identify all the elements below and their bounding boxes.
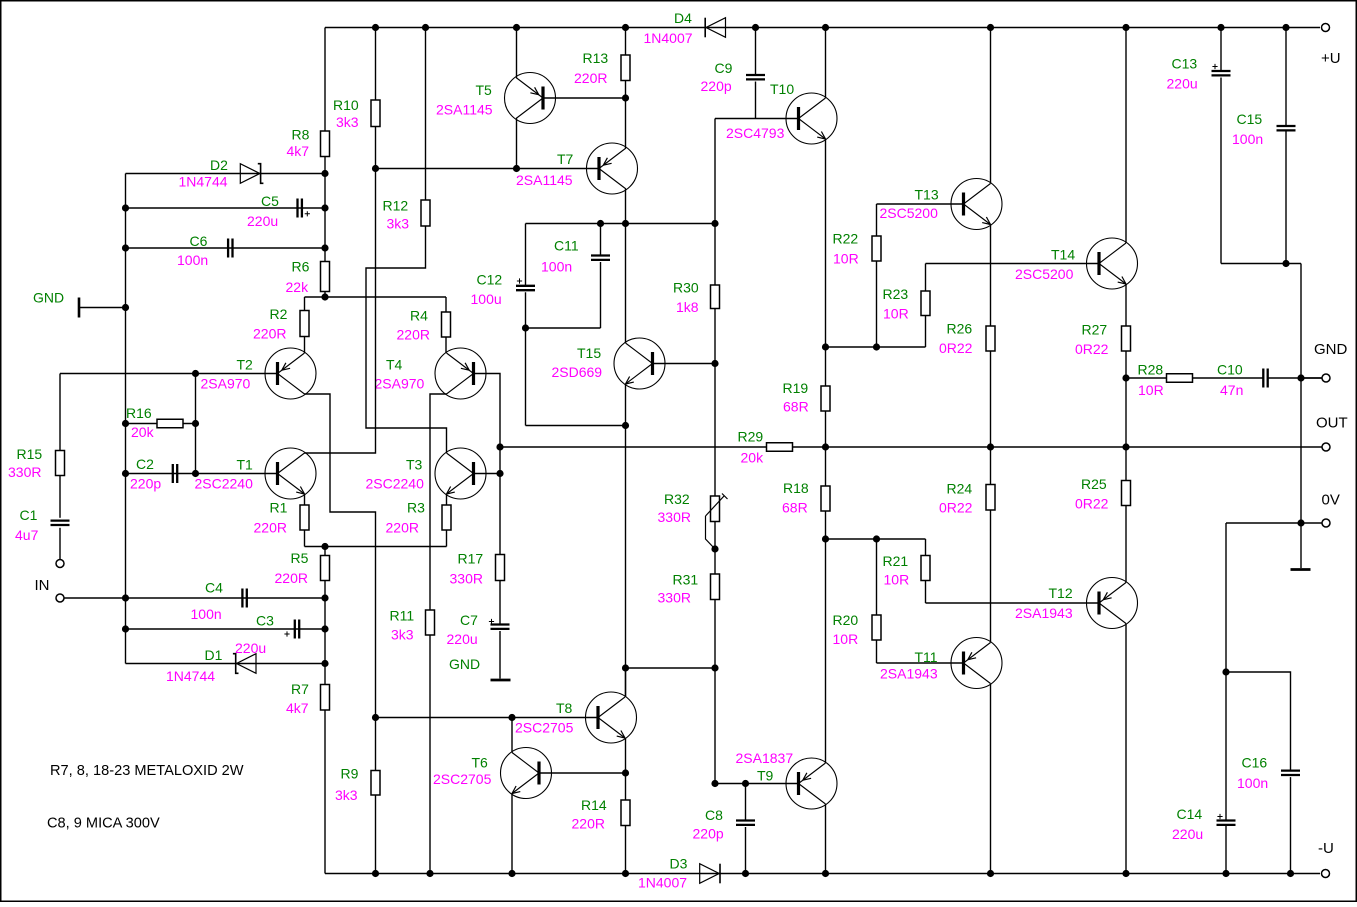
svg-text:220u: 220u: [1172, 826, 1203, 842]
resistor R6: [321, 262, 330, 292]
wire R27 down to OUT: [1125, 351, 1127, 447]
svg-text:D4: D4: [674, 10, 692, 26]
terminal OUT: [1322, 443, 1330, 451]
svg-text:T5: T5: [476, 82, 493, 98]
trimmer R32: [711, 496, 720, 522]
junction dots bottom mirror: [508, 714, 515, 721]
wire T13 emitter down: [990, 225, 992, 327]
wire R28 row: [1126, 377, 1167, 379]
wire left bias column: [125, 174, 127, 664]
svg-text:T15: T15: [577, 345, 601, 361]
svg-text:2SA970: 2SA970: [201, 376, 251, 392]
capacitor C6: [228, 239, 232, 258]
svg-text:330R: 330R: [450, 571, 483, 587]
svg-text:220R: 220R: [275, 570, 308, 586]
ground GND left symbol: [78, 298, 81, 318]
wire +U top rail: [325, 27, 1320, 29]
wire T6 collector up: [511, 718, 513, 753]
capacitor C12: [525, 224, 527, 286]
wire R24 up to OUT: [990, 447, 992, 485]
wire T10 base: [715, 118, 798, 120]
transistor T9: [786, 758, 837, 809]
svg-text:C8: C8: [705, 807, 723, 823]
svg-text:R19: R19: [783, 380, 809, 396]
wire R20 column: [876, 539, 878, 615]
svg-text:2SA1943: 2SA1943: [880, 666, 938, 682]
resistor R14: [621, 800, 630, 826]
wire T4 base to feedback node: [474, 374, 501, 555]
svg-text:R31: R31: [673, 572, 699, 588]
wire R31 node to T9 base: [714, 668, 716, 784]
wire T15 collector up: [625, 224, 627, 344]
svg-text:2SA1145: 2SA1145: [516, 172, 573, 188]
svg-text:R5: R5: [291, 550, 309, 566]
wire T8 base row: [376, 717, 598, 719]
svg-text:D3: D3: [670, 856, 688, 872]
svg-text:C5: C5: [261, 193, 279, 209]
wire T11 collector down: [990, 684, 992, 874]
wire R21 column: [925, 539, 927, 556]
capacitor C3: [295, 620, 299, 639]
junction dots T5/T7 region: [513, 165, 520, 172]
svg-text:2SC5200: 2SC5200: [1015, 266, 1074, 282]
resistor R7: [321, 685, 330, 711]
wire T11 base row: [877, 662, 964, 664]
wire T2 collector path: [305, 394, 376, 718]
wire T7 emitter up: [625, 98, 627, 148]
wire T8 collector up: [625, 668, 627, 697]
svg-text:R21: R21: [883, 553, 909, 569]
wire T1 emitter / R1: [304, 494, 306, 505]
svg-text:R7, 8, 18-23 METALOXID 2W: R7, 8, 18-23 METALOXID 2W: [50, 763, 244, 779]
svg-text:C13: C13: [1172, 56, 1198, 72]
svg-text:R27: R27: [1082, 322, 1108, 338]
wire IN / C4 row: [64, 597, 325, 599]
svg-text:C3: C3: [256, 613, 274, 629]
wire R4 column: [445, 297, 447, 312]
svg-text:220p: 220p: [701, 78, 732, 94]
wire R2 column: [304, 297, 306, 311]
capacitor C15: [1285, 28, 1287, 127]
terminal 0V: [1322, 519, 1330, 527]
svg-text:C1: C1: [20, 507, 38, 523]
junction dots feedback node: [496, 443, 503, 450]
svg-text:+U: +U: [1321, 50, 1341, 67]
wire T5 collector down: [516, 119, 518, 169]
wire R18 column: [825, 447, 827, 486]
wire T8 collector row: [626, 667, 716, 669]
svg-text:C12: C12: [477, 272, 503, 288]
svg-text:10R: 10R: [884, 572, 910, 588]
wire T1 collector path: [305, 169, 376, 454]
svg-text:R20: R20: [833, 612, 859, 628]
capacitor C8: [745, 784, 747, 821]
svg-text:R13: R13: [583, 50, 609, 66]
wire T12 emitter up: [1125, 506, 1127, 583]
zener diode D2: [240, 164, 259, 184]
svg-text:-U: -U: [1318, 840, 1334, 857]
wire C11/C12 bottom row: [526, 327, 601, 329]
wire T10 base jog down to R30: [714, 119, 716, 224]
svg-text:3k3: 3k3: [391, 627, 414, 643]
wire T14 emitter down: [1125, 284, 1127, 326]
svg-text:R7: R7: [291, 681, 309, 697]
wire T5 base row: [543, 97, 626, 99]
diode D2 row wire: [126, 173, 326, 175]
svg-text:0R22: 0R22: [1075, 341, 1109, 357]
wire T8 emitter / R14 column: [625, 738, 627, 800]
svg-text:R24: R24: [947, 481, 973, 497]
svg-text:T3: T3: [406, 457, 423, 473]
wire T10 collector to rail: [825, 28, 827, 99]
capacitor C9: [755, 28, 757, 76]
svg-text:C15: C15: [1237, 111, 1263, 127]
transistor T11: [951, 638, 1002, 689]
svg-text:R1: R1: [270, 500, 288, 516]
capacitor C16: [1281, 771, 1300, 775]
resistor R9: [371, 771, 380, 796]
wire T3 emitter / R3: [446, 494, 448, 505]
resistor R2: [300, 311, 309, 337]
svg-text:2SC2240: 2SC2240: [366, 476, 425, 492]
svg-text:3k3: 3k3: [335, 787, 358, 803]
wire R8 column: [324, 28, 326, 132]
resistor R24: [986, 485, 995, 511]
svg-text:T9: T9: [757, 768, 774, 784]
svg-text:R26: R26: [947, 321, 973, 337]
wire T13 collector to rail: [990, 28, 992, 184]
svg-text:R18: R18: [783, 480, 809, 496]
transistor T15: [614, 338, 665, 389]
resistor R27: [1122, 326, 1131, 351]
svg-text:2SA1943: 2SA1943: [1015, 605, 1073, 621]
svg-text:R2: R2: [270, 306, 288, 322]
resistor R30: [711, 285, 720, 309]
transistor T14: [1087, 238, 1138, 289]
wire T11 emitter up: [990, 510, 992, 643]
junction dots OUT row: [822, 443, 829, 450]
resistor R5: [321, 556, 330, 581]
wire 0V row: [1226, 522, 1322, 524]
wire C13/C15 bottom row: [1221, 263, 1301, 265]
capacitor C11: [600, 224, 602, 256]
svg-text:220u: 220u: [235, 640, 266, 656]
svg-text:C11: C11: [554, 238, 579, 254]
svg-text:R11: R11: [390, 608, 415, 624]
svg-text:T13: T13: [915, 187, 939, 203]
svg-text:R12: R12: [383, 198, 409, 214]
wire T9 base row: [715, 783, 799, 785]
wire T12 base row: [926, 602, 1099, 604]
svg-text:R14: R14: [581, 797, 607, 813]
wire R9 column: [375, 718, 377, 771]
resistor R13: [621, 55, 630, 81]
transistor T4: [435, 348, 486, 399]
junction dots driver bias: [873, 343, 880, 350]
wire T7 base row: [376, 168, 599, 170]
resistor R3: [442, 505, 451, 530]
capacitor C4: [242, 589, 246, 608]
svg-text:GND: GND: [449, 656, 480, 672]
svg-text:R15: R15: [17, 446, 43, 462]
junction dots VAS region: [597, 220, 604, 227]
wire input divider column x=195.5: [195, 374, 197, 474]
svg-text:1N4744: 1N4744: [179, 174, 228, 190]
svg-text:2SC2240: 2SC2240: [195, 476, 254, 492]
svg-text:R8: R8: [292, 127, 310, 143]
wire R30 column: [714, 224, 716, 286]
wire emitter degeneration row: [305, 546, 447, 548]
svg-text:20k: 20k: [741, 450, 765, 466]
resistor R28: [1167, 374, 1193, 383]
svg-text:R4: R4: [410, 308, 428, 324]
svg-text:0V: 0V: [1322, 492, 1340, 509]
resistor R4: [442, 312, 451, 337]
svg-text:R29: R29: [738, 429, 764, 445]
wire R2-R4 top node row: [305, 296, 447, 298]
resistor R8: [321, 131, 330, 157]
wire T15 emitter down: [625, 384, 627, 426]
wire R18 node row: [826, 538, 926, 540]
wire R19 column: [825, 347, 827, 386]
wire OUT line: [500, 446, 767, 448]
svg-text:2SC4793: 2SC4793: [726, 125, 785, 141]
svg-text:2SC5200: 2SC5200: [880, 205, 939, 221]
wire T3 collector path: [366, 226, 447, 453]
capacitor C14: [1225, 672, 1227, 821]
junction dots top rail: [372, 24, 379, 31]
resistor R1: [300, 505, 309, 530]
svg-text:C7: C7: [460, 612, 478, 628]
capacitor C2 row wire: [126, 473, 196, 475]
capacitor C6 row wire: [126, 247, 326, 249]
diode D3: [700, 864, 720, 884]
wire right GND column: [1300, 264, 1302, 524]
svg-text:T12: T12: [1049, 585, 1073, 601]
wire GND terminal stub: [1301, 377, 1322, 379]
svg-text:0R22: 0R22: [939, 500, 973, 516]
wire T9 emitter up: [825, 539, 827, 763]
svg-text:3k3: 3k3: [336, 114, 359, 130]
wire R25 up to OUT: [1125, 447, 1127, 481]
svg-text:10R: 10R: [883, 306, 909, 322]
svg-text:100n: 100n: [1232, 131, 1263, 147]
terminal GND: [1322, 374, 1330, 382]
svg-text:0R22: 0R22: [1075, 496, 1109, 512]
svg-text:R9: R9: [341, 766, 359, 782]
svg-text:C6: C6: [190, 233, 208, 249]
wire T13 base row: [877, 203, 964, 205]
wire R10 column: [375, 28, 377, 101]
transistor T2: [265, 348, 316, 399]
junction dots bottom rail: [372, 870, 379, 877]
resistor R23: [921, 291, 930, 316]
wire T1 base row: [196, 473, 278, 475]
svg-text:220R: 220R: [572, 816, 605, 832]
wire R12 top column from rail: [425, 28, 427, 201]
svg-text:R10: R10: [333, 97, 359, 113]
resistor R11: [426, 610, 435, 635]
capacitor C7: [499, 581, 501, 625]
transistor T1: [265, 448, 316, 499]
svg-text:2SA1145: 2SA1145: [436, 102, 493, 118]
svg-text:220u: 220u: [447, 631, 478, 647]
wire T6 base row: [539, 772, 626, 774]
wire T12 collector down: [1125, 624, 1127, 874]
svg-text:4k7: 4k7: [287, 143, 310, 159]
terminal +U: [1322, 24, 1330, 32]
svg-text:220R: 220R: [254, 520, 287, 536]
resistor R17: [496, 555, 505, 581]
capacitor C5 row wire: [126, 207, 326, 209]
svg-text:2SA970: 2SA970: [375, 376, 425, 392]
svg-text:10R: 10R: [833, 631, 859, 647]
resistor R20: [872, 615, 881, 640]
transistor T12: [1087, 578, 1138, 629]
diode D1 row wire: [126, 663, 326, 665]
capacitor C3 row wire: [126, 628, 326, 630]
ground under 0V: [1300, 523, 1302, 568]
wire T10 emitter down: [825, 139, 827, 347]
svg-text:T8: T8: [556, 700, 573, 716]
wire R26 down to OUT: [990, 351, 992, 447]
svg-text:220u: 220u: [1167, 75, 1198, 91]
svg-text:C4: C4: [205, 580, 223, 596]
svg-text:C2: C2: [136, 456, 154, 472]
svg-text:T1: T1: [237, 457, 254, 473]
terminal IN: [56, 594, 64, 602]
svg-text:100n: 100n: [1237, 775, 1268, 791]
svg-text:R25: R25: [1081, 476, 1107, 492]
wire T14 base row: [926, 263, 1099, 265]
svg-text:R17: R17: [458, 551, 484, 567]
svg-text:R28: R28: [1138, 362, 1164, 378]
junction dots input divider: [192, 370, 199, 377]
svg-text:2SC2705: 2SC2705: [515, 720, 574, 736]
svg-text:100n: 100n: [541, 259, 572, 275]
svg-text:330R: 330R: [8, 464, 41, 480]
transistor T5: [505, 73, 556, 124]
svg-text:GND: GND: [33, 290, 64, 306]
capacitor C13: [1220, 28, 1222, 72]
svg-text:3k3: 3k3: [387, 216, 410, 232]
resistor R26: [986, 326, 995, 351]
wire R13 column: [625, 28, 627, 56]
capacitor C1: [51, 521, 70, 525]
zener diode D1: [237, 654, 257, 674]
resistor R29: [767, 443, 793, 452]
svg-text:220p: 220p: [130, 476, 161, 492]
wire R5/R7 column: [324, 547, 326, 556]
wire T2 base row: [60, 373, 278, 375]
svg-text:330R: 330R: [658, 590, 691, 606]
wire R22 column: [876, 204, 878, 236]
wire R32-R31: [714, 522, 716, 575]
svg-text:OUT: OUT: [1316, 415, 1348, 432]
wire R31 down: [714, 600, 716, 669]
transistor T7: [587, 143, 638, 194]
svg-text:10R: 10R: [833, 251, 859, 267]
terminal C1 bottom: [56, 560, 64, 568]
svg-text:R23: R23: [883, 286, 909, 302]
transistor T8: [586, 692, 637, 743]
svg-text:C10: C10: [1217, 362, 1243, 378]
capacitor C10: [1263, 369, 1267, 388]
wire T14 collector to rail: [1125, 28, 1127, 244]
svg-text:T6: T6: [472, 755, 489, 771]
diode D4: [706, 18, 726, 38]
transistor T13: [951, 179, 1002, 230]
svg-text:1N4744: 1N4744: [166, 668, 215, 684]
resistor R18: [821, 486, 830, 511]
svg-text:1N4007: 1N4007: [638, 875, 687, 891]
svg-text:GND: GND: [1314, 341, 1348, 358]
svg-text:20k: 20k: [131, 424, 155, 440]
svg-text:D2: D2: [210, 157, 228, 173]
resistor R10: [371, 100, 380, 127]
transistor T10: [786, 93, 837, 144]
resistor R15: [56, 451, 65, 476]
svg-text:C14: C14: [1177, 806, 1203, 822]
svg-text:D1: D1: [205, 647, 223, 663]
wire C11/C12 top node row: [526, 223, 716, 225]
svg-text:2SD669: 2SD669: [552, 364, 603, 380]
svg-text:T7: T7: [557, 151, 574, 167]
transistor T6: [501, 748, 552, 799]
svg-text:2SA1837: 2SA1837: [736, 750, 794, 766]
svg-text:68R: 68R: [783, 399, 809, 415]
svg-text:220R: 220R: [253, 326, 286, 342]
wire T5 emitter to rail: [516, 28, 518, 78]
terminal -U: [1322, 870, 1330, 878]
resistor R12: [421, 200, 430, 226]
svg-text:1k8: 1k8: [676, 299, 699, 315]
svg-text:10R: 10R: [1138, 382, 1164, 398]
svg-text:R16: R16: [126, 405, 152, 421]
svg-text:T11: T11: [915, 649, 938, 665]
wire T15 base row: [653, 363, 716, 365]
svg-text:T4: T4: [386, 357, 403, 373]
wire C12 to T15 emitter: [526, 425, 626, 427]
junction dots T9 region: [711, 780, 718, 787]
svg-text:220R: 220R: [574, 70, 607, 86]
svg-text:R32: R32: [664, 491, 690, 507]
svg-text:R30: R30: [673, 280, 699, 296]
wire T4 collector path: [430, 394, 447, 610]
resistor R21: [921, 556, 930, 581]
resistor R25: [1122, 481, 1131, 506]
wire R30-R32: [714, 309, 716, 497]
wire -U bottom rail: [325, 873, 1320, 875]
resistor R16: [157, 419, 183, 428]
resistor R16 row wire: [126, 423, 196, 425]
svg-text:100n: 100n: [191, 606, 222, 622]
junction dots right side: [1122, 374, 1129, 381]
svg-text:220R: 220R: [397, 327, 430, 343]
svg-text:1N4007: 1N4007: [644, 30, 693, 46]
resistor R31: [711, 574, 720, 600]
wire R19 node row: [826, 346, 926, 348]
wire C16 branch: [1226, 672, 1291, 771]
transistor T3: [435, 448, 486, 499]
wire T6 emitter down: [511, 794, 513, 874]
resistor R19: [821, 386, 830, 411]
junction dots bias column: [122, 204, 129, 211]
resistor R22: [872, 236, 881, 261]
wire T9 collector down: [825, 804, 827, 874]
svg-text:4k7: 4k7: [286, 700, 309, 716]
svg-text:22k: 22k: [286, 279, 310, 295]
